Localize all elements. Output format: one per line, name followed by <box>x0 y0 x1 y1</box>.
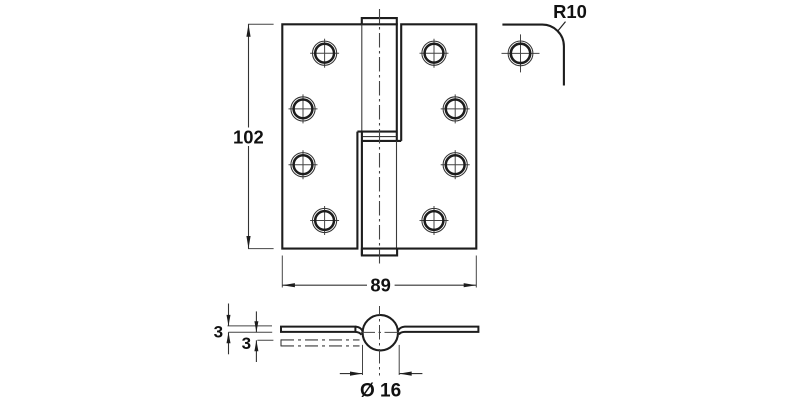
svg-text:R10: R10 <box>553 1 587 22</box>
R10 corner detail outline <box>502 25 564 86</box>
dimension 3 upper: arrows <box>228 304 230 326</box>
screw hole 7 right leaf <box>441 150 470 179</box>
svg-text:3: 3 <box>242 334 251 353</box>
knuckle joint lower line <box>362 140 401 142</box>
dimension diameter 16: extension lines <box>362 345 364 375</box>
screw hole 3 left leaf <box>289 150 318 179</box>
knuckle joint step upper line <box>357 131 396 133</box>
lower knuckle right edge <box>396 141 398 249</box>
knuckle joint middle line <box>362 136 397 138</box>
knuckle top cap <box>362 18 397 24</box>
plan view right bar <box>398 326 479 335</box>
dimension 3 lower: extension line <box>257 339 273 341</box>
dimension diameter 16: lines and arrows <box>340 373 363 375</box>
front view center line <box>379 9 381 266</box>
dimension 3 lower: arrows <box>255 311 257 332</box>
dimension 3 upper: extension lines <box>228 325 273 327</box>
dimension 89 line <box>282 284 367 286</box>
left leaf <box>282 24 362 248</box>
right leaf <box>397 24 476 248</box>
plan view left neck <box>355 327 363 335</box>
lower knuckle left edge <box>361 132 363 256</box>
svg-text:89: 89 <box>370 275 390 296</box>
screw hole 2 left leaf <box>289 94 318 123</box>
svg-text:Ø 16: Ø 16 <box>360 380 401 400</box>
plan view ghost leaf (dashed) <box>281 339 360 341</box>
plan view horizontal center line <box>361 331 400 333</box>
screw hole 8 right leaf <box>420 206 449 235</box>
plan view vertical center line <box>379 306 381 376</box>
screw hole 1 left leaf <box>310 39 339 68</box>
R10 leader line <box>558 22 565 31</box>
upper knuckle left edge <box>361 24 363 136</box>
knuckle bottom cap <box>362 249 397 256</box>
screw hole 6 right leaf <box>441 94 470 123</box>
R10 detail screw hole <box>502 34 540 72</box>
svg-text:3: 3 <box>214 322 223 341</box>
svg-text:102: 102 <box>233 127 264 148</box>
screw hole 4 left leaf <box>310 206 339 235</box>
dimension 102 line <box>248 24 250 127</box>
screw hole 5 right leaf <box>420 39 449 68</box>
plan view left bar <box>281 326 355 333</box>
dimension 102 extension lines <box>248 23 274 25</box>
dimension 89 extension lines <box>281 256 283 288</box>
plan view barrel circle <box>363 315 398 350</box>
upper knuckle right edge <box>396 24 398 141</box>
